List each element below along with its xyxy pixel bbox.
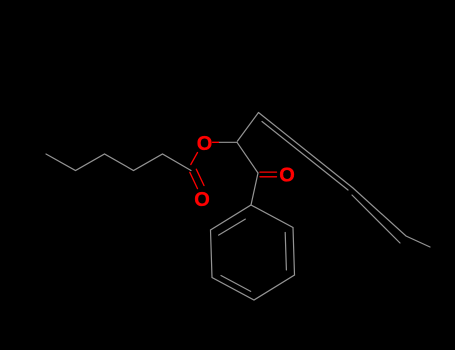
- benzene ring: [211, 205, 295, 300]
- ester C2=O3 double bond: [190, 172, 198, 188]
- wire: long diene outer line: [259, 113, 431, 248]
- bond O1 to C6 red half: [213, 141, 219, 143]
- wire: O1 to C6 gray half: [219, 141, 238, 143]
- svg-text:O: O: [194, 189, 210, 211]
- wire: C6 to C7: [238, 113, 259, 142]
- wire: C5 to ring attach: [251, 173, 258, 205]
- bond O1 to C2 red: [191, 153, 198, 165]
- ring inner aromatic line 2: [221, 276, 251, 292]
- svg-text:O: O: [279, 165, 295, 187]
- svg-text:O: O: [197, 133, 213, 155]
- wire: diene inner line 2: [352, 195, 400, 243]
- ring inner aromatic line 3: [219, 219, 246, 235]
- ring inner aromatic line 1: [285, 233, 286, 271]
- wire: diene inner line 1: [262, 122, 348, 191]
- wire: left hexanoyl chain: [46, 154, 191, 171]
- ketone C5=O4 double bond: [260, 171, 277, 173]
- wire: C6 to C5 ketone: [237, 142, 258, 173]
